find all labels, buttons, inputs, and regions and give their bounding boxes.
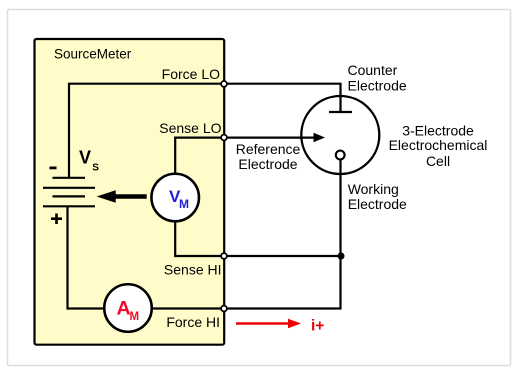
svg-text:Cell: Cell <box>426 153 450 169</box>
svg-text:A: A <box>117 297 131 319</box>
svg-text:Sense LO: Sense LO <box>159 120 221 136</box>
svg-text:S: S <box>92 163 99 174</box>
svg-text:Electrode: Electrode <box>238 156 297 172</box>
svg-text:Sense HI: Sense HI <box>164 262 222 278</box>
svg-text:Force LO: Force LO <box>162 66 220 82</box>
svg-text:i+: i+ <box>311 318 324 335</box>
svg-text:Electrode: Electrode <box>348 78 407 94</box>
svg-text:M: M <box>130 311 140 323</box>
svg-text:Working: Working <box>348 181 399 197</box>
svg-text:Counter: Counter <box>348 62 398 78</box>
svg-text:SourceMeter: SourceMeter <box>54 47 132 62</box>
svg-text:V: V <box>79 148 91 168</box>
svg-text:Reference: Reference <box>236 141 301 157</box>
svg-text:M: M <box>179 197 189 211</box>
svg-text:Electrode: Electrode <box>348 196 407 212</box>
svg-text:Force HI: Force HI <box>166 314 220 330</box>
svg-text:Electrochemical: Electrochemical <box>389 137 488 153</box>
